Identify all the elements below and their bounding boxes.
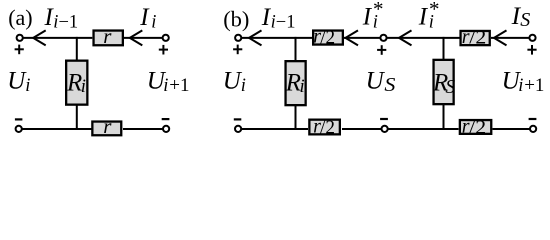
svg-text:i: i [300,77,305,97]
svg-text:*: * [429,0,440,21]
svg-text:i: i [25,76,30,96]
svg-text:/2: /2 [469,27,486,49]
svg-text:*: * [373,0,384,21]
svg-text:S: S [445,77,455,98]
svg-text:i: i [81,77,86,97]
svg-text:r: r [103,114,112,138]
svg-text:+1: +1 [524,75,544,96]
svg-text:U: U [223,68,243,95]
svg-text:S: S [384,74,395,96]
svg-text:/2: /2 [469,116,486,138]
svg-text:(a): (a) [8,5,32,30]
svg-text:r: r [103,24,112,48]
svg-text:I: I [362,4,373,31]
svg-text:S: S [520,9,530,31]
svg-text:/2: /2 [320,116,335,138]
svg-text:(b): (b) [223,7,249,32]
svg-text:i: i [241,76,246,96]
svg-text:i: i [151,13,156,33]
svg-text:U: U [7,68,27,95]
svg-text:i: i [163,76,168,96]
svg-text:/2: /2 [320,26,335,48]
svg-text:i: i [518,76,523,96]
svg-text:U: U [366,68,386,95]
svg-text:I: I [139,4,150,31]
svg-text:I: I [418,4,429,31]
svg-text:+1: +1 [169,75,189,96]
svg-text:−1: −1 [59,12,79,32]
svg-text:−1: −1 [276,12,296,32]
